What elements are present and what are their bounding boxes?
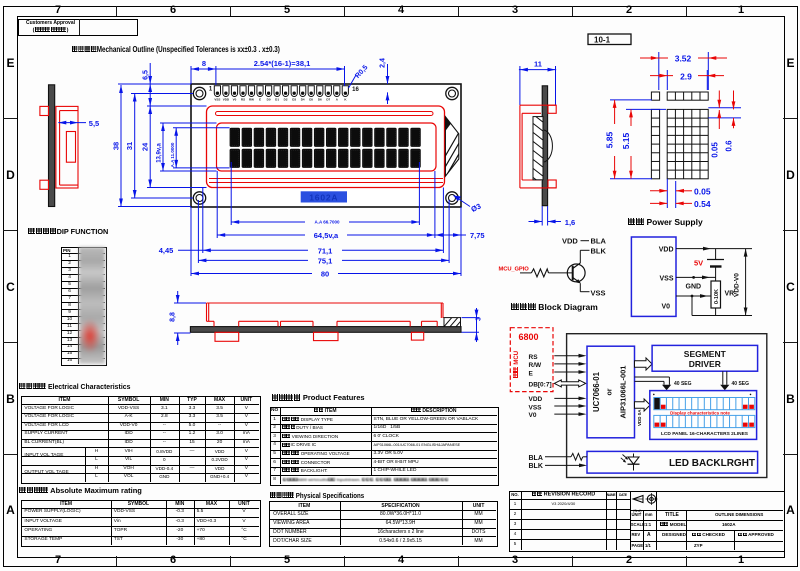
revision record and title block xyxy=(509,491,785,552)
svg-text:or: or xyxy=(607,388,614,395)
label BLA xyxy=(581,237,607,246)
title: mechanical outline xyxy=(72,45,280,54)
dim 3 (connector) xyxy=(462,308,483,342)
dim 24 + 6,5 xyxy=(141,63,207,188)
wire VDD xyxy=(676,247,752,251)
svg-text:LED BACKLRGHT: LED BACKLRGHT xyxy=(669,458,755,469)
svg-text:DRIVER: DRIVER xyxy=(689,359,721,369)
capacitor C1 xyxy=(707,249,724,281)
svg-text:Display characteristics note: Display characteristics note xyxy=(670,411,730,416)
svg-text:6800: 6800 xyxy=(519,332,539,342)
right side view PCB xyxy=(542,86,547,206)
left side view PCB xyxy=(49,85,55,207)
product features table xyxy=(270,407,500,486)
signal VSS xyxy=(529,404,587,411)
physical specifications title xyxy=(270,491,364,500)
dim 5.85 xyxy=(605,100,653,179)
right side view red frame xyxy=(520,105,556,188)
left side view red frame xyxy=(40,106,78,189)
signal R/W xyxy=(529,362,587,369)
dim 75,1 xyxy=(198,256,449,266)
block diagram outer box xyxy=(567,334,767,478)
LCD panel character rows xyxy=(654,398,755,428)
pin VSS xyxy=(659,276,673,283)
signal RS xyxy=(529,354,587,361)
wire emitter to VSS xyxy=(580,289,605,298)
electrical characteristics title xyxy=(19,382,130,391)
dim 64,5 xyxy=(217,230,435,240)
dim 2,4 xyxy=(380,58,390,104)
mounting holes xyxy=(193,87,458,204)
svg-text:R/W: R/W xyxy=(529,362,543,369)
label BLA xyxy=(529,455,543,462)
absolute maximum rating title xyxy=(19,486,142,495)
label GND xyxy=(686,284,702,291)
svg-text:VDD 0A: VDD 0A xyxy=(637,409,642,426)
wire V0 xyxy=(676,294,711,298)
label BLK xyxy=(529,463,543,470)
LED BACKLIGHT box xyxy=(587,451,758,473)
pin function table title xyxy=(28,227,108,236)
pin header 1-16 xyxy=(209,86,360,102)
dim 5.15 xyxy=(621,109,666,178)
wire collector to BLK xyxy=(580,250,589,263)
signal VDD xyxy=(529,396,587,403)
dims 0.05 / 0.6 (right) xyxy=(708,91,741,158)
pin function table xyxy=(61,247,107,367)
dims 0.05 / 0.54 (bottom) xyxy=(650,179,711,209)
6800 user MCU rotated label xyxy=(513,351,520,378)
wire VSS xyxy=(676,276,716,280)
tiny label VDD 0A xyxy=(637,409,642,426)
dim 8,8 xyxy=(170,291,206,345)
label VR xyxy=(725,291,735,298)
dim 2.54*(16-1)=38,1 xyxy=(216,59,345,86)
power supply title xyxy=(628,217,703,227)
bottom side view connector hatch xyxy=(442,315,472,329)
hollow arrow chip to segment driver xyxy=(635,358,653,370)
physical specifications table xyxy=(269,501,498,547)
dim 3.52 xyxy=(640,52,727,90)
display character blocks 16x2 xyxy=(230,128,421,168)
LCD module front view outline xyxy=(191,84,461,207)
extension lines below module xyxy=(191,162,461,276)
bottom side view PCB xyxy=(190,327,461,333)
dim 4,45 leader xyxy=(159,246,203,255)
transistor Q1 xyxy=(567,263,585,292)
product features title xyxy=(271,393,364,402)
signal V0 xyxy=(529,412,587,419)
1602A silkscreen label xyxy=(301,191,347,202)
dim 38 (left) xyxy=(112,84,192,207)
LCD panel box xyxy=(650,391,757,440)
signal DB[0:7] bidirectional bus xyxy=(529,380,586,388)
right side view hatched glass xyxy=(530,112,548,189)
display window (red) xyxy=(217,123,437,171)
block diagram title xyxy=(511,302,598,312)
signal E xyxy=(529,370,587,377)
dim 2.9 xyxy=(650,70,724,90)
wire BLK xyxy=(545,464,587,468)
svg-text:VSS: VSS xyxy=(529,404,543,411)
svg-text:VDD: VDD xyxy=(529,396,543,403)
dim VDD-V0 xyxy=(734,249,748,316)
bottom side view red bezel profile xyxy=(207,303,444,341)
pin V0 xyxy=(661,304,670,311)
dim 7,75 xyxy=(435,231,485,240)
dim 8 (top) xyxy=(191,59,216,85)
6800 MCU dashed box xyxy=(510,328,553,392)
pin table blurred symbol column xyxy=(79,247,105,364)
power supply LCD box xyxy=(631,237,676,316)
absolute maximum rating table xyxy=(21,500,260,547)
right side view arc xyxy=(544,130,552,162)
dim AA 66.7000 xyxy=(231,218,419,225)
svg-text:DB[0:7]: DB[0:7] xyxy=(529,381,552,388)
svg-text:V0: V0 xyxy=(529,412,537,419)
dim 31 xyxy=(125,94,193,199)
controller chip UC7066-01 xyxy=(587,346,635,438)
bezel top slot (red) xyxy=(216,112,434,116)
dim AA 11.0000 xyxy=(170,128,229,168)
bezel bottom lines (red) xyxy=(209,179,443,183)
right hatched area xyxy=(428,108,541,186)
panel note text xyxy=(670,411,730,416)
label 5V xyxy=(694,259,703,268)
SEGMENT DRIVER box xyxy=(652,345,758,371)
svg-text:BLK: BLK xyxy=(529,463,543,470)
dim R0,5 leader xyxy=(349,64,370,88)
wire bottom rail xyxy=(692,296,752,316)
label VDD xyxy=(562,237,578,246)
resistor R2 on BLA wire xyxy=(545,453,587,460)
pin VDD xyxy=(659,246,674,253)
dim 1,6 xyxy=(529,206,576,227)
blurred note row 8 xyxy=(283,477,449,482)
potentiometer VR 0-10K xyxy=(711,281,721,316)
bus segment driver to panel (40 SEG) xyxy=(720,371,749,390)
dim 80 xyxy=(191,269,461,279)
svg-text:RS: RS xyxy=(529,354,539,361)
bus chip to panel (COM) xyxy=(635,377,692,390)
hollow arrow chip to LCD panel xyxy=(635,399,651,411)
label MCU_GPIO xyxy=(499,267,530,273)
label BLK xyxy=(591,246,607,255)
svg-text:E: E xyxy=(529,370,534,377)
resistor R1 xyxy=(520,269,573,277)
dim 71,1 xyxy=(203,246,444,256)
dim 13,9 xyxy=(157,123,217,171)
electrical characteristics table xyxy=(21,396,260,484)
svg-text:AIP31066L-001: AIP31066L-001 xyxy=(619,366,628,419)
panel caption xyxy=(661,431,749,437)
svg-text:UC7066-01: UC7066-01 xyxy=(592,371,601,412)
third angle projection symbol xyxy=(630,492,664,514)
svg-text:40 SEG: 40 SEG xyxy=(732,381,750,387)
dot matrix grid xyxy=(651,92,708,179)
customer approval box xyxy=(18,19,138,37)
svg-text:SEGMENT: SEGMENT xyxy=(684,349,727,359)
dim 11 (right side view) xyxy=(519,60,556,106)
bezel outer (red) xyxy=(207,106,445,188)
svg-text:BLA: BLA xyxy=(529,455,543,462)
LED D1 symbol xyxy=(621,454,640,471)
10-1 label box xyxy=(588,34,631,45)
dim diameter 3 leader xyxy=(454,196,483,214)
svg-text:40 SEG: 40 SEG xyxy=(674,381,692,387)
dim 5,5 xyxy=(58,119,99,128)
svg-text:LCD PANEL 16-CHARACTERS 2LINES: LCD PANEL 16-CHARACTERS 2LINES xyxy=(661,431,749,437)
